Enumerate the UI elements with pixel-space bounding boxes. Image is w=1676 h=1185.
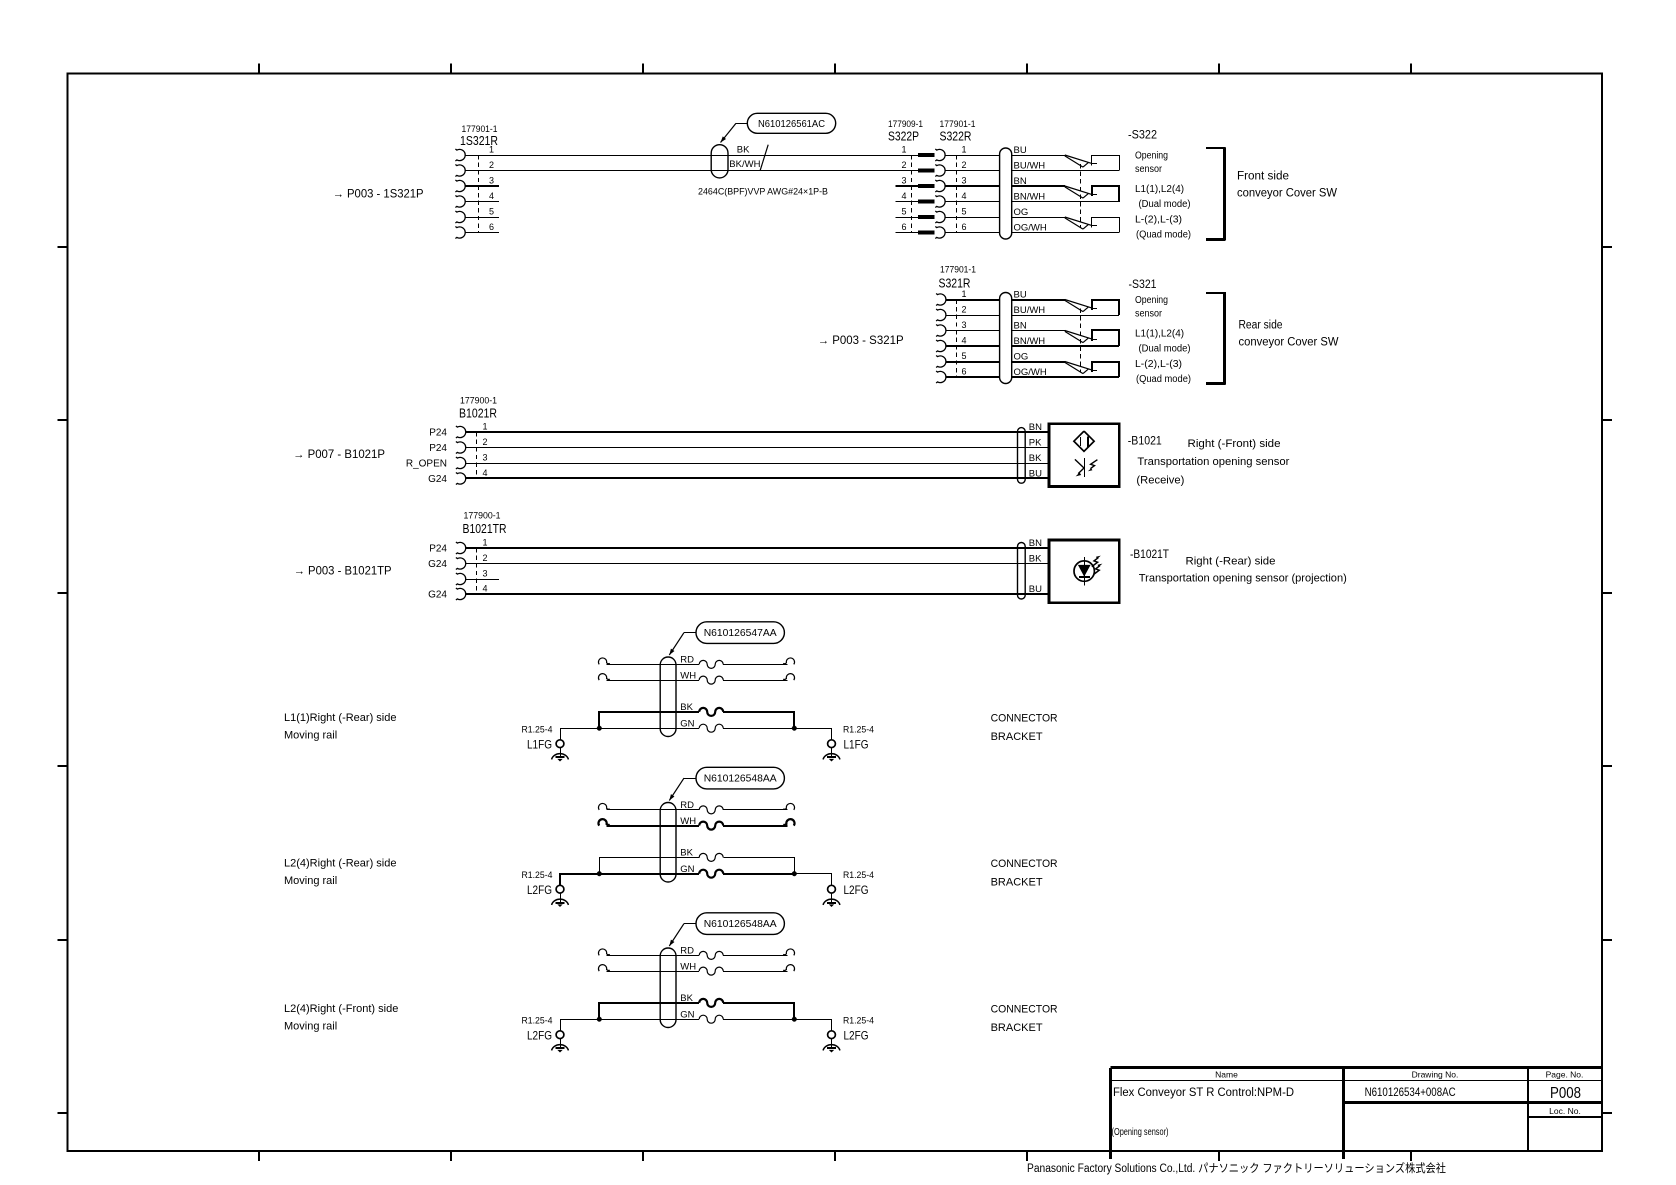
svg-text:R1.25-4: R1.25-4 <box>843 870 874 880</box>
svg-text:BRACKET: BRACKET <box>991 876 1043 888</box>
svg-text:Rear side: Rear side <box>1239 320 1283 332</box>
svg-text:1: 1 <box>489 145 494 155</box>
svg-text:G24: G24 <box>428 474 447 485</box>
svg-text:177909-1: 177909-1 <box>888 119 923 129</box>
svg-text:L2FG: L2FG <box>527 883 552 897</box>
svg-text:L1FG: L1FG <box>527 738 552 752</box>
svg-text:BU: BU <box>1014 145 1027 156</box>
svg-text:N610126561AC: N610126561AC <box>758 118 825 130</box>
svg-text:CONNECTOR: CONNECTOR <box>991 1003 1058 1015</box>
svg-text:-B1021T: -B1021T <box>1130 549 1169 561</box>
svg-text:R1.25-4: R1.25-4 <box>843 725 874 735</box>
svg-text:Flex Conveyor ST R Control:NPM: Flex Conveyor ST R Control:NPM-D <box>1113 1087 1294 1099</box>
svg-text:1: 1 <box>961 289 966 299</box>
svg-text:BK: BK <box>1029 453 1042 464</box>
svg-text:BK: BK <box>680 702 693 713</box>
svg-text:WH: WH <box>680 670 696 681</box>
svg-text:177900-1: 177900-1 <box>464 511 501 521</box>
svg-text:3: 3 <box>482 453 487 463</box>
svg-text:Moving rail: Moving rail <box>284 1020 337 1032</box>
svg-text:P008: P008 <box>1550 1085 1581 1102</box>
svg-text:-S322: -S322 <box>1128 127 1157 141</box>
svg-text:5: 5 <box>489 207 494 217</box>
svg-text:Front side: Front side <box>1237 171 1289 183</box>
svg-text:6: 6 <box>901 222 906 232</box>
svg-text:RD: RD <box>680 655 694 666</box>
svg-text:L1(1)Right (-Rear) side: L1(1)Right (-Rear) side <box>284 712 396 724</box>
svg-text:N610126547AA: N610126547AA <box>704 627 777 639</box>
svg-text:BN: BN <box>1014 321 1027 332</box>
svg-text:R1.25-4: R1.25-4 <box>522 1016 553 1026</box>
svg-text:L2FG: L2FG <box>527 1029 552 1043</box>
svg-text:(Receive): (Receive) <box>1136 474 1184 486</box>
svg-text:2: 2 <box>901 160 906 170</box>
svg-text:3: 3 <box>482 569 487 579</box>
svg-text:P24: P24 <box>429 543 447 554</box>
svg-text:4: 4 <box>482 584 487 594</box>
svg-text:6: 6 <box>961 367 966 377</box>
svg-text:GN: GN <box>680 1009 694 1020</box>
svg-text:1: 1 <box>482 422 487 432</box>
svg-text:BK: BK <box>737 145 750 156</box>
svg-text:N610126548AA: N610126548AA <box>704 918 777 930</box>
svg-text:Moving rail: Moving rail <box>284 729 337 741</box>
svg-text:6: 6 <box>961 222 966 232</box>
svg-text:177901-1: 177901-1 <box>462 124 498 134</box>
svg-text:4: 4 <box>482 468 487 478</box>
svg-text:PK: PK <box>1029 438 1042 449</box>
svg-text:P24: P24 <box>429 443 447 454</box>
svg-text:L2FG: L2FG <box>844 1029 869 1043</box>
svg-text:OG: OG <box>1014 207 1029 218</box>
svg-text:BN/WH: BN/WH <box>1014 192 1046 203</box>
svg-text:BK: BK <box>1029 554 1042 565</box>
svg-text:sensor: sensor <box>1135 309 1163 320</box>
svg-text:3: 3 <box>489 176 494 186</box>
svg-text:P24: P24 <box>429 427 447 438</box>
svg-text:CONNECTOR: CONNECTOR <box>991 712 1058 724</box>
svg-text:B1021TR: B1021TR <box>463 522 507 536</box>
svg-text:BN: BN <box>1029 538 1042 549</box>
svg-text:L-(2),L-(3): L-(2),L-(3) <box>1135 359 1182 370</box>
svg-text:WH: WH <box>680 816 696 827</box>
svg-text:sensor: sensor <box>1135 164 1163 175</box>
svg-text:2: 2 <box>482 437 487 447</box>
svg-text:S322P: S322P <box>888 130 919 144</box>
svg-text:BU/WH: BU/WH <box>1014 161 1046 172</box>
svg-text:BU: BU <box>1014 290 1027 301</box>
svg-text:4: 4 <box>961 191 966 201</box>
svg-text:BU: BU <box>1029 584 1042 595</box>
svg-text:Loc. No.: Loc. No. <box>1549 1106 1581 1116</box>
svg-text:(Quad mode): (Quad mode) <box>1136 230 1191 241</box>
svg-text:BU: BU <box>1029 469 1042 480</box>
svg-text:-B1021: -B1021 <box>1128 436 1162 448</box>
svg-text:5: 5 <box>961 207 966 217</box>
svg-text:4: 4 <box>489 191 494 201</box>
svg-text:→ P007 - B1021P: → P007 - B1021P <box>293 449 385 461</box>
svg-text:2: 2 <box>961 160 966 170</box>
svg-text:1: 1 <box>901 145 906 155</box>
svg-text:N610126534+008AC: N610126534+008AC <box>1365 1087 1456 1099</box>
svg-text:→ P003 - 1S321P: → P003 - 1S321P <box>333 189 424 201</box>
svg-text:2: 2 <box>489 160 494 170</box>
svg-text:CONNECTOR: CONNECTOR <box>991 858 1058 870</box>
svg-text:L1(1),L2(4): L1(1),L2(4) <box>1135 329 1184 340</box>
svg-text:(Quad mode): (Quad mode) <box>1136 374 1191 385</box>
svg-text:Right (-Front) side: Right (-Front) side <box>1188 438 1281 450</box>
svg-text:conveyor Cover SW: conveyor Cover SW <box>1237 188 1337 200</box>
svg-text:L1(1),L2(4): L1(1),L2(4) <box>1135 184 1184 195</box>
svg-text:L2(4)Right (-Front) side: L2(4)Right (-Front) side <box>284 1003 398 1015</box>
svg-text:→ P003 - S321P: → P003 - S321P <box>818 335 904 347</box>
svg-text:L1FG: L1FG <box>844 738 869 752</box>
svg-text:RD: RD <box>680 946 694 957</box>
svg-text:R1.25-4: R1.25-4 <box>522 870 553 880</box>
svg-text:3: 3 <box>961 176 966 186</box>
svg-text:Transportation opening sensor: Transportation opening sensor (projectio… <box>1139 573 1347 585</box>
svg-text:5: 5 <box>961 351 966 361</box>
svg-text:GN: GN <box>680 718 694 729</box>
svg-text:1: 1 <box>482 538 487 548</box>
svg-text:BN: BN <box>1029 422 1042 433</box>
svg-text:Opening: Opening <box>1135 295 1168 306</box>
svg-text:2: 2 <box>961 305 966 315</box>
svg-text:177900-1: 177900-1 <box>460 395 497 405</box>
svg-text:Panasonic Factory Solutions Co: Panasonic Factory Solutions Co.,Ltd. パナソ… <box>1027 1161 1446 1175</box>
svg-text:OG/WH: OG/WH <box>1014 223 1047 234</box>
svg-text:4: 4 <box>901 191 906 201</box>
svg-text:Opening: Opening <box>1135 151 1168 162</box>
svg-text:L2(4)Right (-Rear) side: L2(4)Right (-Rear) side <box>284 858 396 870</box>
svg-text:OG: OG <box>1014 352 1029 363</box>
svg-text:Name: Name <box>1215 1070 1238 1080</box>
svg-text:BRACKET: BRACKET <box>991 731 1043 743</box>
svg-text:Transportation opening sensor: Transportation opening sensor <box>1137 456 1289 468</box>
svg-text:GN: GN <box>680 864 694 875</box>
svg-text:2: 2 <box>482 553 487 563</box>
svg-text:(Dual mode): (Dual mode) <box>1139 343 1191 354</box>
svg-text:R1.25-4: R1.25-4 <box>522 725 553 735</box>
svg-text:(Opening sensor): (Opening sensor) <box>1112 1126 1169 1138</box>
svg-text:BU/WH: BU/WH <box>1014 305 1046 316</box>
svg-text:Right (-Rear) side: Right (-Rear) side <box>1186 556 1276 568</box>
svg-text:B1021R: B1021R <box>459 407 497 421</box>
svg-text:(Dual mode): (Dual mode) <box>1139 199 1191 210</box>
svg-text:6: 6 <box>489 222 494 232</box>
svg-text:R1.25-4: R1.25-4 <box>843 1016 874 1026</box>
svg-text:-S321: -S321 <box>1129 277 1157 291</box>
svg-text:R_OPEN: R_OPEN <box>406 458 447 469</box>
svg-text:177901-1: 177901-1 <box>940 119 976 129</box>
svg-text:BK: BK <box>680 993 693 1004</box>
svg-text:N610126548AA: N610126548AA <box>704 773 777 785</box>
svg-text:G24: G24 <box>428 589 447 600</box>
svg-text:Page. No.: Page. No. <box>1546 1070 1584 1080</box>
svg-text:→ P003 - B1021TP: → P003 - B1021TP <box>294 566 392 578</box>
svg-text:S322R: S322R <box>940 130 972 144</box>
svg-text:4: 4 <box>961 336 966 346</box>
svg-text:Drawing No.: Drawing No. <box>1412 1070 1459 1080</box>
svg-text:WH: WH <box>680 961 696 972</box>
svg-text:177901-1: 177901-1 <box>940 265 976 275</box>
svg-text:3: 3 <box>961 320 966 330</box>
svg-text:G24: G24 <box>428 559 447 570</box>
svg-text:L-(2),L-(3): L-(2),L-(3) <box>1135 215 1182 226</box>
svg-text:BK/WH: BK/WH <box>729 159 760 170</box>
svg-text:BRACKET: BRACKET <box>991 1022 1043 1034</box>
svg-text:2464C(BPF)VVP AWG#24×1P-B: 2464C(BPF)VVP AWG#24×1P-B <box>698 187 828 198</box>
svg-text:BK: BK <box>680 848 693 859</box>
svg-text:conveyor Cover SW: conveyor Cover SW <box>1239 337 1339 349</box>
svg-text:L2FG: L2FG <box>844 883 869 897</box>
svg-text:Moving rail: Moving rail <box>284 875 337 887</box>
svg-text:5: 5 <box>901 207 906 217</box>
svg-text:1: 1 <box>961 145 966 155</box>
svg-text:3: 3 <box>901 176 906 186</box>
svg-text:RD: RD <box>680 800 694 811</box>
